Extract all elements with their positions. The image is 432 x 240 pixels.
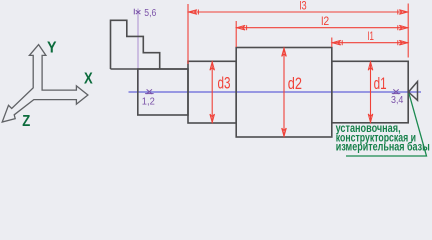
arrowhead l3 left [189,10,199,15]
svg-text:l3: l3 [300,0,307,13]
arrowhead d2 bottom [282,128,287,136]
extension line at x=332 [331,38,333,48]
arrowhead d1 top [368,62,373,70]
dimension line l1 [332,42,408,44]
arrowhead d3 bottom [210,114,215,122]
svg-text:1,2: 1,2 [142,96,155,107]
svg-text:l1: l1 [368,29,375,43]
shaft section d2 [236,48,332,138]
shaft section d3 [188,61,236,123]
shaft section 1 (leftmost journal) [138,69,188,115]
arrowhead d3 top [210,62,215,70]
tailstock centre (triangle at right end) [409,82,418,101]
svg-text:l2: l2 [321,14,329,28]
svg-text:Y: Y [47,40,57,57]
extension line at x=236 [235,21,237,47]
svg-text:3,4: 3,4 [391,95,404,106]
dimension line l3 [188,11,408,13]
arrowhead l1 right [398,40,408,45]
svg-text:X: X [84,71,93,88]
arrowhead l1 left [332,40,342,45]
centerline (axis of shaft) [129,91,422,93]
shaft section d1 [332,61,408,123]
arrowhead l2 right [398,25,408,30]
svg-text:d2: d2 [288,75,302,93]
datum marker 5,6 [134,9,140,15]
extension line at x=188 [187,4,189,64]
svg-text:измерительная базы: измерительная базы [336,141,430,154]
leader line (green) to annotation [346,94,427,157]
dimension line d1 (vertical) [370,61,372,123]
arrowhead l2 left [237,25,247,30]
svg-text:Z: Z [22,113,30,130]
extension line at x=408 [407,4,409,58]
dimension line d3 (vertical) [211,61,213,123]
svg-text:5,6: 5,6 [144,8,156,19]
dimension line d2 (vertical) [283,48,285,138]
dimension line l2 [236,27,408,29]
stepped chuck profile (staircase) [111,20,189,69]
coordinate axes icon (X,Y,Z hollow arrows) [2,45,88,122]
arrowhead d1 bottom [368,114,373,122]
datum line 5,6 (vertical, violet) [137,9,139,92]
datum marker 1,2 [145,89,154,94]
arrowhead l3 right [398,10,408,15]
svg-text:d1: d1 [374,75,387,93]
datum marker 3,4 [392,89,401,94]
svg-text:d3: d3 [218,75,231,93]
arrowhead d2 top [282,48,287,56]
